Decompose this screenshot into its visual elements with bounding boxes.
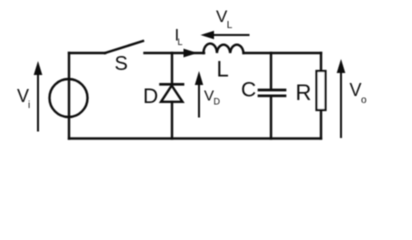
wire diode branch bottom — [171, 102, 173, 139]
wire diode branch top — [171, 53, 173, 84]
wire top rail middle segment — [145, 52, 205, 54]
wire top rail left segment — [69, 52, 105, 54]
arrow VD line — [198, 83, 200, 117]
wire capacitor top — [270, 53, 272, 89]
arrow Vo line — [340, 71, 342, 137]
switch S blade — [105, 41, 143, 53]
svg-text:D: D — [214, 97, 221, 107]
svg-text:D: D — [143, 85, 158, 108]
svg-text:L: L — [217, 57, 229, 82]
arrow Vi line — [37, 73, 39, 131]
svg-text:L: L — [227, 20, 233, 31]
voltage source Vi circle — [50, 79, 88, 117]
wire capacitor bottom — [270, 97, 272, 139]
svg-text:S: S — [115, 53, 128, 75]
wire top rail right segment — [244, 52, 322, 54]
arrow VL line — [212, 34, 249, 36]
svg-text:R: R — [296, 80, 312, 105]
svg-text:V: V — [204, 88, 214, 105]
wire bottom rail — [69, 137, 321, 139]
capacitor C bottom plate — [259, 94, 285, 97]
arrow Vi head — [34, 61, 43, 75]
diode D triangle — [161, 86, 183, 102]
wire left branch vertical — [68, 53, 70, 139]
svg-text:L: L — [178, 37, 183, 47]
inductor L coil — [204, 44, 244, 53]
capacitor C top plate — [259, 89, 285, 92]
svg-text:C: C — [241, 79, 256, 102]
svg-text:o: o — [361, 95, 367, 106]
wire right branch down to resistor — [320, 53, 322, 70]
arrow Vo head — [337, 59, 346, 73]
resistor R body — [317, 71, 326, 110]
arrow VD head — [195, 71, 203, 85]
svg-text:i: i — [28, 100, 30, 111]
wire resistor bottom to rail — [320, 111, 322, 139]
svg-text:V: V — [350, 80, 362, 100]
arrow VL head — [201, 31, 215, 40]
current arrow I_L head — [184, 49, 198, 58]
diode D cathode bar — [161, 83, 184, 86]
